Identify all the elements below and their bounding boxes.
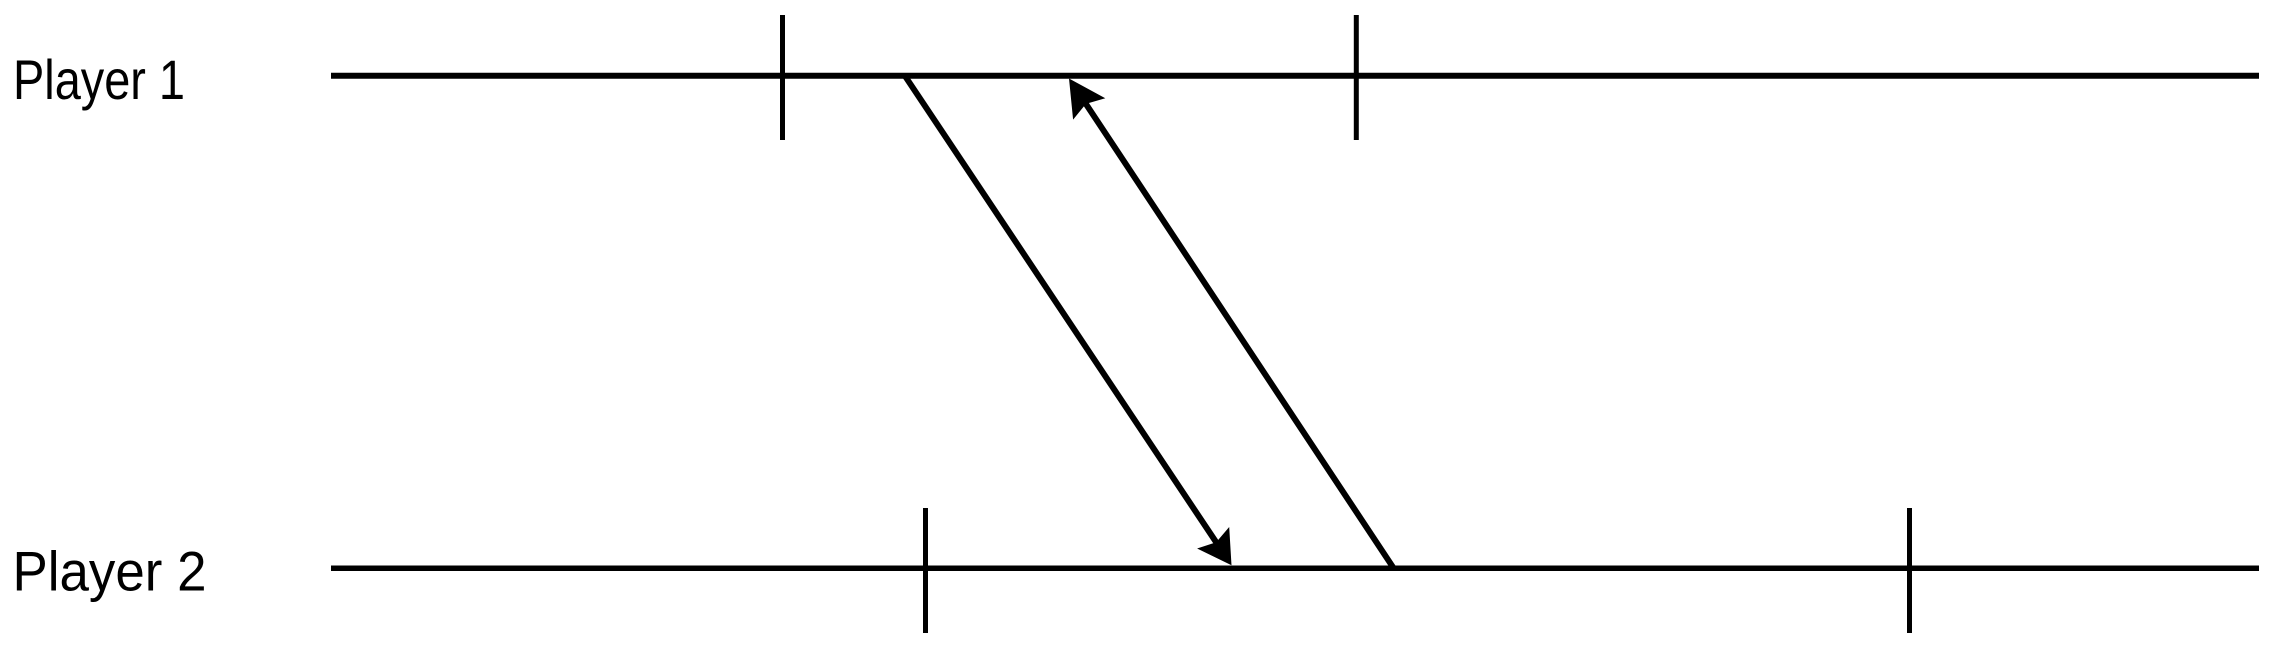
message arrow down head (1197, 527, 1231, 565)
timeline Player 2 (331, 566, 2259, 572)
message arrow down (Player 1 to Player 2) shaft (905, 76, 1220, 548)
tick 2 on Player 2 (1907, 508, 1912, 633)
tick 1 on Player 2 (923, 508, 928, 633)
message arrow up head (1069, 79, 1105, 120)
tick 1 on Player 1 (780, 15, 785, 140)
svg-text:Player 1: Player 1 (13, 48, 185, 111)
svg-text:Player 2: Player 2 (13, 540, 207, 603)
message arrow up (Player 2 to Player 1) shaft (1081, 97, 1393, 568)
timeline Player 1 (331, 73, 2259, 79)
tick 2 on Player 1 (1354, 15, 1359, 140)
